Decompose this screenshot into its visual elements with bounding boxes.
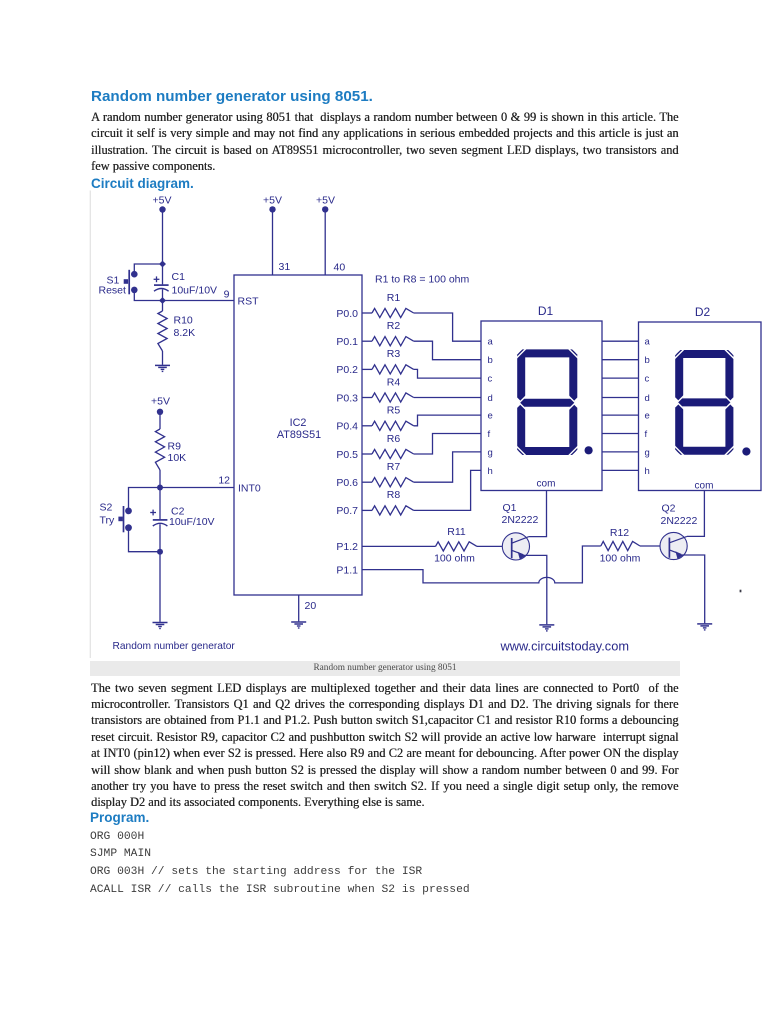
wire R2 to segment b <box>414 341 481 360</box>
svg-text:R11: R11 <box>447 526 466 538</box>
svg-text:S2: S2 <box>100 502 113 514</box>
svg-text:P0.1: P0.1 <box>336 336 358 348</box>
resistor R7 <box>362 481 372 483</box>
program heading <box>90 810 149 825</box>
resistor R12 <box>601 541 640 550</box>
svg-text:h: h <box>488 466 493 477</box>
svg-text:R12: R12 <box>610 527 629 539</box>
svg-text:R3: R3 <box>387 348 401 360</box>
svg-text:C1: C1 <box>172 271 186 283</box>
wire R6 to segment f <box>414 434 481 455</box>
display D1 box <box>481 321 602 491</box>
+5V supply (reset) <box>153 195 172 213</box>
svg-text:AT89S51: AT89S51 <box>277 429 321 441</box>
svg-text:g: g <box>488 447 493 458</box>
svg-text:com: com <box>537 479 556 490</box>
+5V supply (R9) <box>151 395 170 415</box>
wire to pin 40 <box>324 212 326 275</box>
svg-text:P0.7: P0.7 <box>336 505 358 517</box>
resistor R4 <box>362 397 372 399</box>
svg-text:+5V: +5V <box>263 195 282 207</box>
figure left border <box>89 191 91 659</box>
svg-text:10uF/10V: 10uF/10V <box>169 516 215 528</box>
wire bus a D1 to D2 <box>602 340 639 342</box>
svg-text:INT0: INT0 <box>238 483 261 495</box>
intro paragraph <box>91 109 679 158</box>
svg-text:c: c <box>645 374 650 385</box>
wire R5 to segment e <box>414 415 481 426</box>
svg-text:R8: R8 <box>387 489 401 501</box>
+5V supply (pin 31) <box>263 195 282 213</box>
wire bus g D1 to D2 <box>602 451 639 453</box>
title heading <box>91 88 373 106</box>
D1 digit decimal point <box>585 446 593 454</box>
D2 digit <box>673 348 735 457</box>
resistor R1 <box>362 312 372 314</box>
transistor Q2 2N2222 <box>660 532 687 559</box>
resistor R11 <box>436 542 478 551</box>
wire bus f D1 to D2 <box>602 433 639 435</box>
svg-text:Reset: Reset <box>99 285 127 297</box>
svg-text:a: a <box>645 337 651 348</box>
capacitor C2 <box>150 488 167 552</box>
svg-text:g: g <box>645 447 650 458</box>
svg-text:d: d <box>645 393 650 404</box>
svg-text:b: b <box>645 355 650 366</box>
svg-text:R1: R1 <box>387 292 401 304</box>
svg-text:100 ohm: 100 ohm <box>434 553 475 565</box>
wire D1 com to Q1 collector <box>529 491 547 537</box>
svg-text:P0.2: P0.2 <box>336 364 358 376</box>
wire junction to RST pin <box>163 300 235 302</box>
svg-text:10K: 10K <box>168 452 187 464</box>
svg-text:d: d <box>488 393 493 404</box>
svg-text:Q1: Q1 <box>503 502 517 514</box>
wire junction to S1 top <box>134 264 162 271</box>
stray mark <box>740 590 742 593</box>
svg-text:www.circuitstoday.com: www.circuitstoday.com <box>500 639 629 654</box>
code block <box>90 829 470 900</box>
wire Q1 emitter to ground <box>524 555 547 624</box>
wire R8 to segment h <box>414 470 481 510</box>
svg-text:com: com <box>695 481 714 492</box>
resistor R9 <box>155 429 164 470</box>
+5V supply (pin 40) <box>316 195 335 213</box>
resistor R5 <box>362 425 372 427</box>
svg-text:R4: R4 <box>387 376 401 388</box>
svg-text:+5V: +5V <box>151 395 170 407</box>
ground below R10 <box>155 365 170 371</box>
svg-text:40: 40 <box>334 262 346 274</box>
caption strip <box>90 661 680 676</box>
wire R1 to segment a <box>414 313 481 341</box>
svg-text:R2: R2 <box>387 320 401 332</box>
circuit diagram heading <box>91 176 194 191</box>
D2 digit decimal point <box>742 447 750 455</box>
node junction below C2 <box>157 549 163 555</box>
svg-text:9: 9 <box>224 289 230 301</box>
wire P1.1 to R12 (with crossover hop) <box>362 546 601 583</box>
wire junction to S2 <box>129 488 161 508</box>
svg-text:Try: Try <box>100 515 116 527</box>
push button S2 <box>118 506 131 532</box>
svg-text:P0.0: P0.0 <box>336 308 358 320</box>
svg-text:2N2222: 2N2222 <box>661 515 698 527</box>
wire S2 bottom to junction <box>129 531 161 552</box>
svg-text:D1: D1 <box>538 304 554 318</box>
wire bus b D1 to D2 <box>602 359 639 361</box>
svg-text:IC2: IC2 <box>290 417 307 429</box>
capacitor C1 <box>154 266 169 301</box>
node junction below C1 <box>159 297 166 304</box>
svg-text:R1 to R8 = 100 ohm: R1 to R8 = 100 ohm <box>375 274 470 286</box>
svg-text:b: b <box>488 355 493 366</box>
svg-text:c: c <box>488 374 493 385</box>
ground below Q1 <box>539 625 554 631</box>
svg-text:R6: R6 <box>387 433 401 445</box>
resistor R10 <box>158 311 167 351</box>
svg-text:100 ohm: 100 ohm <box>600 553 641 565</box>
pin 20 wire <box>298 595 300 621</box>
wire R12 to Q2 base <box>640 545 660 547</box>
svg-text:12: 12 <box>218 475 230 487</box>
svg-text:P0.5: P0.5 <box>336 449 358 461</box>
ground below C2 <box>153 623 168 629</box>
wire INT0 <box>160 487 234 489</box>
wire +5V to R9 <box>159 415 161 430</box>
svg-text:P0.3: P0.3 <box>336 392 358 404</box>
wire D2 com to Q2 collector <box>687 491 705 537</box>
resistor R3 <box>362 368 372 370</box>
svg-text:D2: D2 <box>695 305 711 319</box>
wire bus c D1 to D2 <box>602 377 639 379</box>
push button S1 <box>124 270 138 295</box>
body paragraph 2 <box>91 680 679 795</box>
svg-text:20: 20 <box>305 600 317 612</box>
wire R11 to Q1 base <box>477 545 502 547</box>
IC2 AT89S51 body <box>234 275 362 595</box>
svg-text:RST: RST <box>238 295 260 307</box>
resistor R8 <box>362 509 372 511</box>
node junction above C1 <box>159 261 166 268</box>
svg-text:10uF/10V: 10uF/10V <box>172 285 218 297</box>
D1 digit <box>515 347 579 457</box>
svg-text:P0.6: P0.6 <box>336 477 358 489</box>
svg-text:+5V: +5V <box>316 195 335 207</box>
wire R3 to segment c <box>414 369 481 378</box>
svg-text:R10: R10 <box>174 315 193 327</box>
svg-text:R7: R7 <box>387 461 401 473</box>
wire Q2 emitter to ground <box>682 555 705 623</box>
svg-text:f: f <box>645 429 648 440</box>
svg-text:e: e <box>645 411 650 422</box>
wire to pin 31 <box>272 212 274 275</box>
svg-text:8.2K: 8.2K <box>174 327 196 339</box>
ground below Q2 <box>697 624 712 630</box>
svg-text:Q2: Q2 <box>662 503 676 515</box>
svg-text:P1.1: P1.1 <box>336 564 358 576</box>
svg-text:f: f <box>488 429 491 440</box>
wire S1 bottom to lower junction <box>134 293 162 301</box>
svg-text:P1.2: P1.2 <box>336 541 358 553</box>
resistor R2 <box>362 340 372 342</box>
wire C2 junction to ground <box>159 552 161 622</box>
transistor Q1 2N2222 <box>502 533 529 560</box>
wire +5V to junction <box>162 212 164 264</box>
wire bus h D1 to D2 <box>602 469 639 471</box>
svg-text:e: e <box>488 411 493 422</box>
svg-text:R9: R9 <box>168 441 182 453</box>
svg-text:31: 31 <box>279 261 291 273</box>
resistor R6 <box>362 453 372 455</box>
svg-text:2N2222: 2N2222 <box>502 514 539 526</box>
display D2 box <box>639 322 762 491</box>
wire R4 to segment d <box>414 397 481 399</box>
svg-text:+5V: +5V <box>153 195 172 207</box>
node junction R9/C2/INT0 <box>157 485 163 491</box>
svg-text:h: h <box>645 466 650 477</box>
svg-text:R5: R5 <box>387 405 401 417</box>
svg-text:P0.4: P0.4 <box>336 421 358 433</box>
svg-text:Random number generator: Random number generator <box>113 641 236 652</box>
svg-text:a: a <box>488 337 494 348</box>
wire R7 to segment g <box>414 452 481 482</box>
wire bus e D1 to D2 <box>602 414 639 416</box>
wire bus d D1 to D2 <box>602 397 639 399</box>
wire P1.2 to R11 <box>362 545 436 547</box>
ground pin 20 <box>291 622 306 628</box>
